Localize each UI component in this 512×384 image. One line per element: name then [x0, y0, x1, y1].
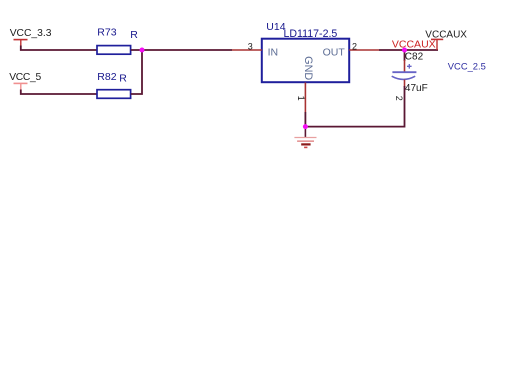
- resistor R73: [97, 27, 138, 54]
- pin 3 (IN): [232, 41, 262, 51]
- ground: [294, 127, 316, 148]
- wire VCC_5 stub to R82: [21, 90, 97, 95]
- wire C82 junction to capacitor top lead: [404, 50, 406, 61]
- wire pin 1 to ground junction: [304, 112, 306, 127]
- svg-text:2: 2: [352, 42, 357, 52]
- pin 2 (OUT): [349, 42, 379, 52]
- svg-text:IN: IN: [268, 46, 279, 58]
- pin 1 (GND): [296, 83, 306, 113]
- power symbol VCCAUX: [425, 29, 467, 50]
- svg-text:1: 1: [296, 96, 306, 101]
- svg-text:R82: R82: [97, 71, 116, 83]
- junction node at ground: [303, 124, 308, 129]
- wire R82 to junction node: [131, 50, 142, 94]
- capacitor C82: [392, 51, 428, 100]
- svg-text:OUT: OUT: [323, 46, 346, 58]
- resistor R82: [97, 71, 131, 98]
- svg-text:GND: GND: [302, 56, 314, 80]
- svg-text:C82: C82: [405, 51, 424, 62]
- svg-text:VCC_5: VCC_5: [9, 72, 41, 83]
- regulator U14 body: [262, 21, 349, 82]
- svg-text:VCC_2.5: VCC_2.5: [448, 61, 486, 72]
- svg-text:R: R: [119, 73, 127, 85]
- power symbol VCC_3.3: [10, 28, 52, 47]
- svg-text:47uF: 47uF: [405, 83, 428, 94]
- junction node at R73/R82: [140, 48, 145, 53]
- power symbol VCC_5: [9, 72, 41, 91]
- svg-text:VCC_3.3: VCC_3.3: [10, 28, 52, 39]
- svg-text:3: 3: [248, 41, 253, 51]
- svg-text:VCCAUX: VCCAUX: [392, 39, 436, 51]
- svg-text:2: 2: [394, 96, 404, 101]
- svg-text:LD1117-2.5: LD1117-2.5: [284, 28, 338, 40]
- wire OUT pin to VCCAUX stub: [379, 49, 438, 51]
- svg-text:R73: R73: [97, 27, 116, 39]
- junction node at C82 top: [402, 48, 407, 53]
- wire capacitor bottom to ground rail: [305, 86, 404, 127]
- wire R73 to U14 pin 3: [131, 49, 232, 51]
- svg-text:R: R: [130, 29, 138, 41]
- wire VCC_3.3 stub to R73: [21, 46, 97, 51]
